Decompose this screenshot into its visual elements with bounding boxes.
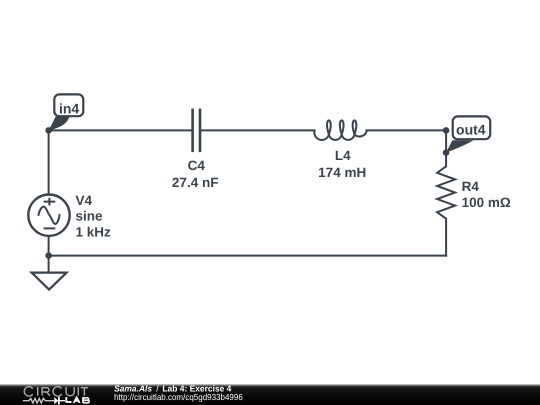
wire bottom rail	[49, 255, 447, 257]
wire V4 bottom terminal to ground junction	[48, 236, 50, 256]
node in4 flag	[49, 94, 84, 130]
resistor R4	[437, 166, 455, 218]
svg-text:L4: L4	[335, 148, 351, 163]
junction dot at out4 flag attachment	[443, 149, 450, 156]
svg-text:http://circuitlab.com/cq5gd933: http://circuitlab.com/cq5gd933b4996	[114, 392, 243, 402]
svg-text:in4: in4	[59, 100, 79, 116]
svg-text:V4: V4	[76, 193, 93, 208]
V4 sine waveform symbol	[38, 207, 59, 224]
junction dot at node out4	[443, 127, 450, 134]
V4 minus polarity mark	[44, 227, 56, 229]
V4 plus polarity mark	[44, 198, 56, 206]
ground	[32, 273, 67, 290]
wire L4 right end to out4 node	[366, 129, 446, 131]
junction dot at ground node	[45, 252, 52, 259]
wire R4 bottom terminal to bottom rail	[445, 219, 447, 256]
wire C4 right plate to L4 left end	[200, 129, 314, 131]
svg-text:100 mΩ: 100 mΩ	[462, 195, 511, 210]
svg-text:R4: R4	[462, 179, 480, 194]
wire out4 node down to R4 top terminal	[445, 130, 447, 166]
svg-text:1 kHz: 1 kHz	[76, 225, 112, 240]
CircuitLab logo	[23, 387, 89, 405]
inductor L4	[314, 120, 366, 140]
svg-text:27.4 nF: 27.4 nF	[172, 175, 219, 190]
svg-text:174 mH: 174 mH	[318, 165, 366, 180]
footer bar	[0, 384, 540, 405]
wire ground stub	[48, 256, 50, 273]
footer title text	[114, 384, 231, 394]
voltage source V4 body	[28, 195, 69, 236]
svg-text:C4: C4	[188, 158, 206, 173]
capacitor C4	[193, 109, 200, 153]
wire in4 node down to V4 top terminal	[48, 130, 50, 194]
svg-text:out4: out4	[456, 122, 486, 138]
svg-text:sine: sine	[76, 209, 104, 224]
node out4 flag	[446, 116, 490, 152]
wire in4 node to C4 left plate	[49, 129, 193, 131]
junction dot at node in4	[45, 127, 52, 134]
